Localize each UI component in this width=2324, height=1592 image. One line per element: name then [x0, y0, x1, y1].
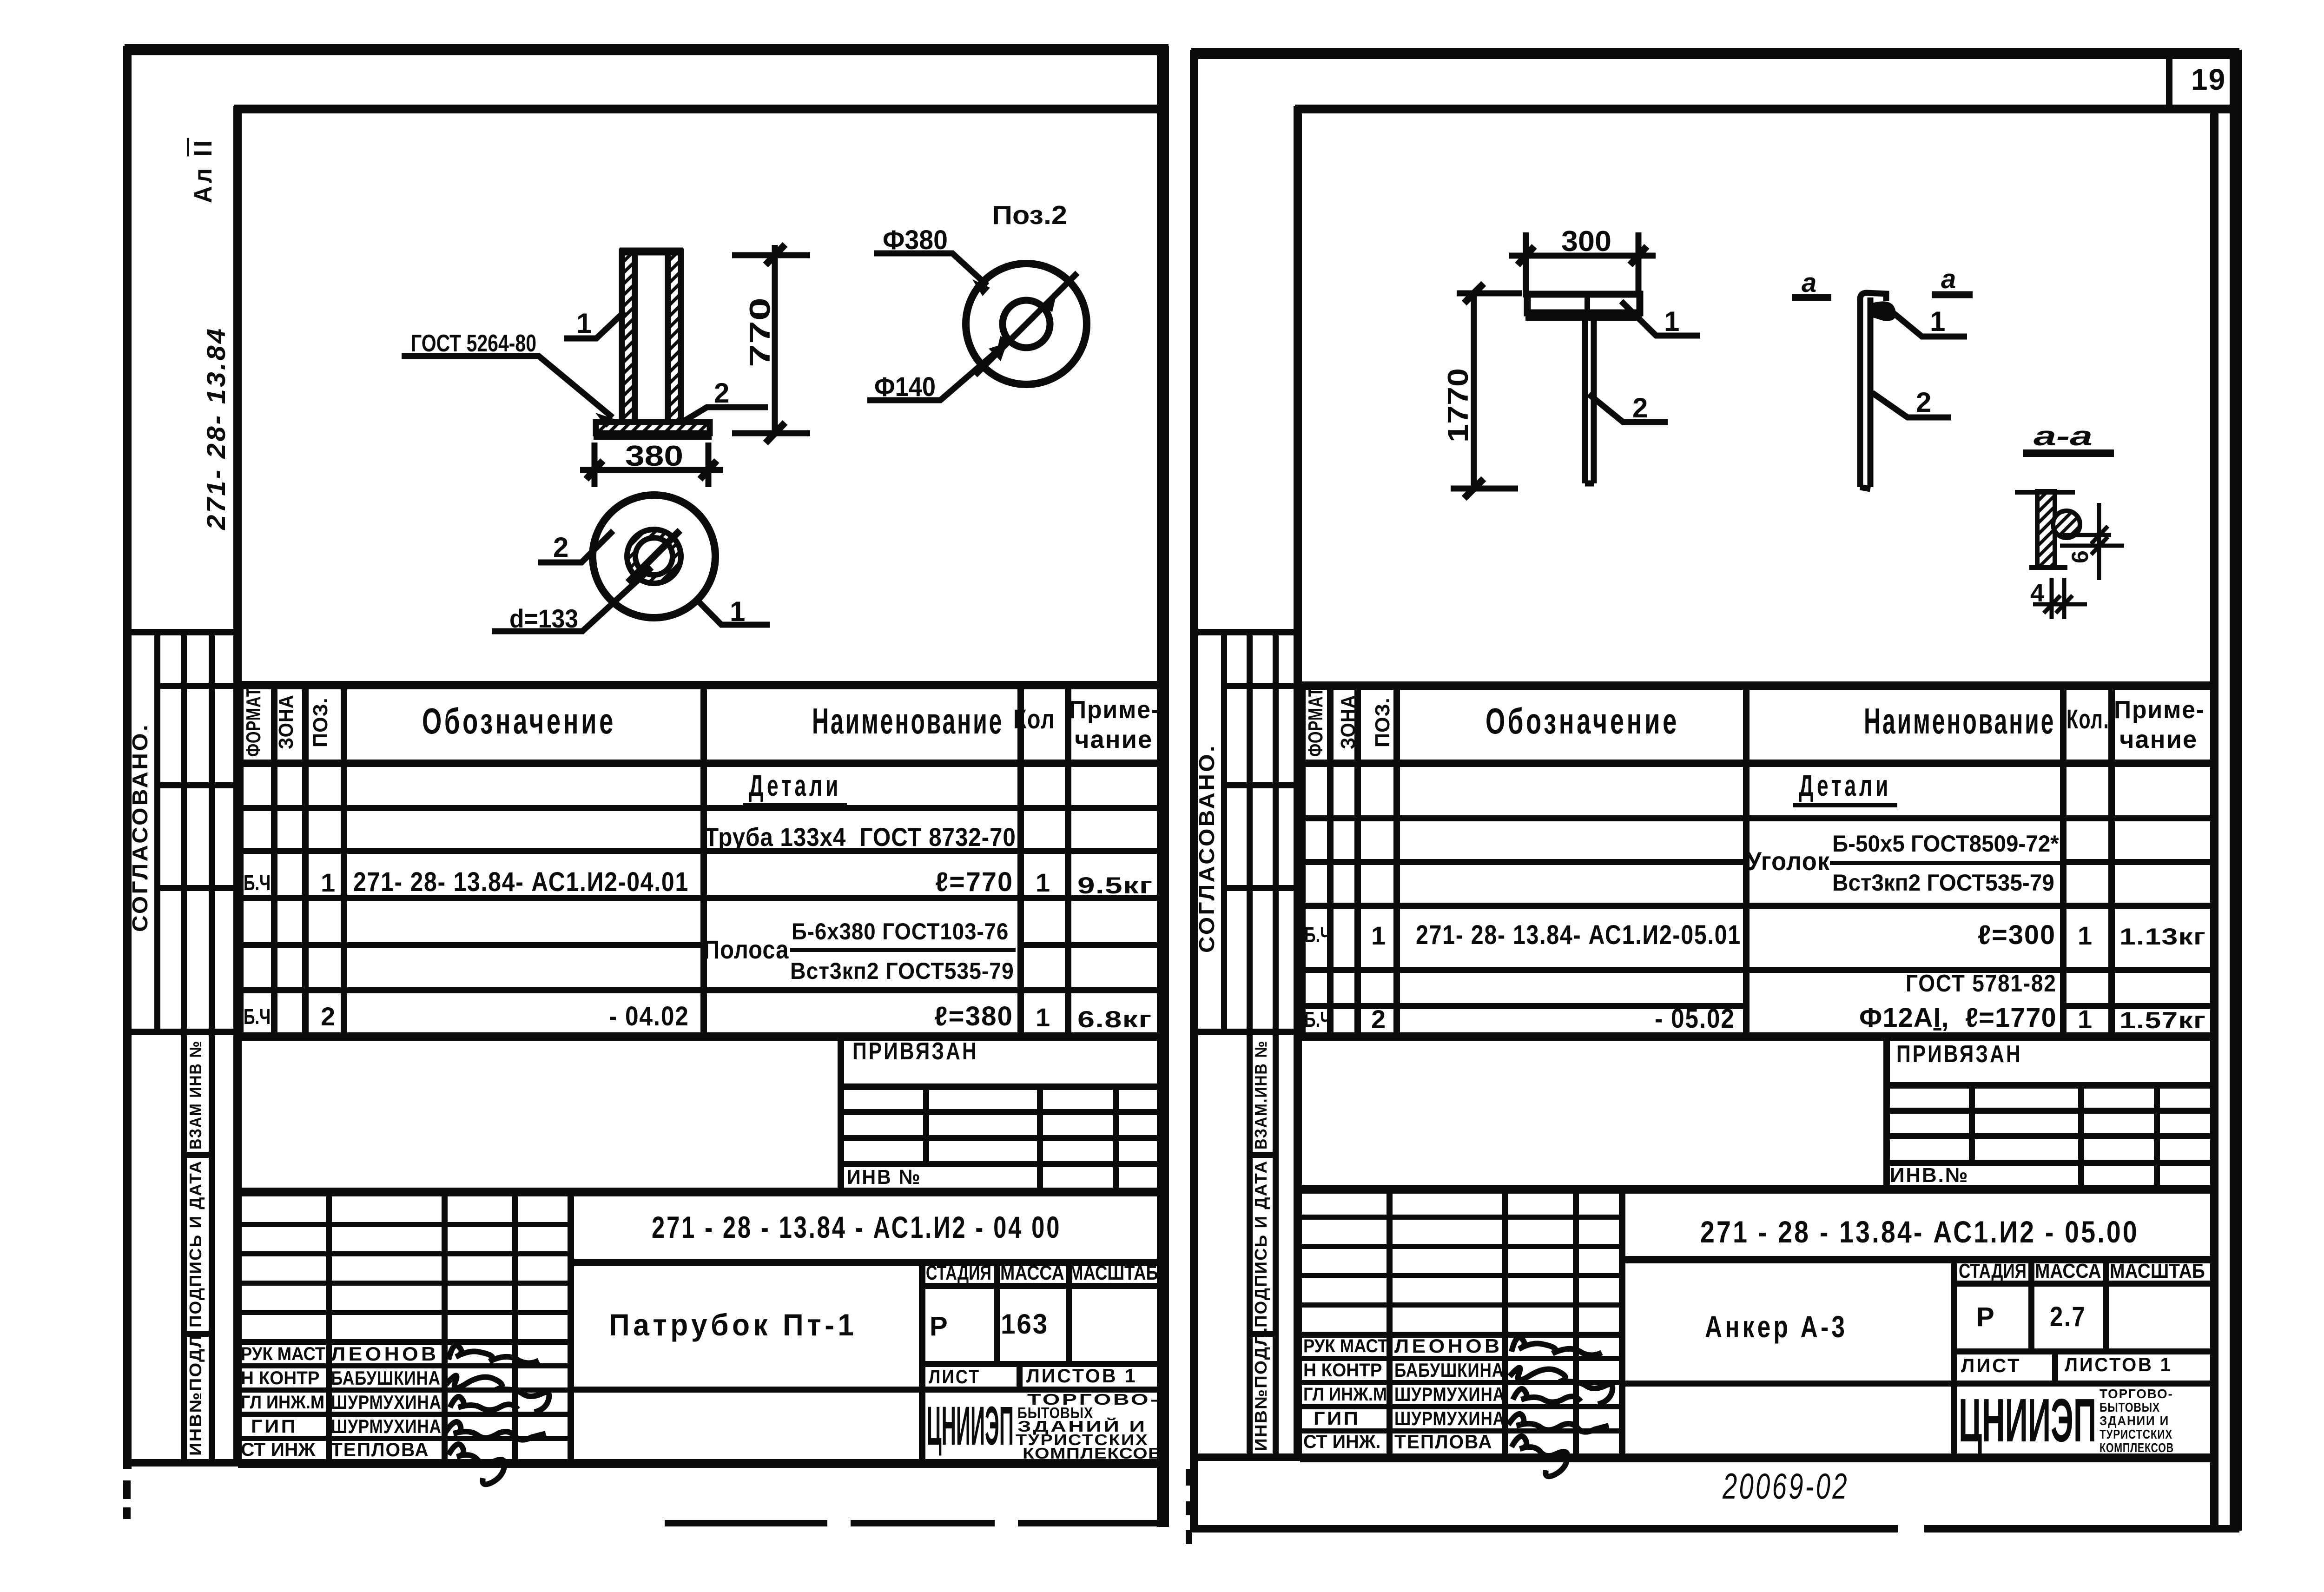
inner frame right [2210, 106, 2218, 1526]
margin: СОГЛАСОВАНО [1194, 744, 1219, 953]
sheet border left [123, 46, 132, 1469]
section mark a underlines [1792, 295, 1973, 297]
leader 1 side [1893, 312, 1967, 337]
svg-text:1: 1 [576, 308, 592, 339]
leader Ф140 [867, 344, 1005, 400]
sheet border bottom [1191, 1525, 1898, 1533]
drawing annotation texts [411, 200, 2093, 633]
plan view outer circle [593, 495, 715, 618]
svg-text:2: 2 [553, 532, 568, 563]
dim 1770 ticks [1451, 293, 1522, 489]
svg-text:1: 1 [1930, 306, 1945, 337]
doc number [1700, 1214, 2139, 1249]
plan leader 2 [538, 531, 613, 562]
dim 1770 line [1471, 292, 1477, 489]
signatures right sheet [1508, 1337, 1612, 1476]
sheet border bottom dashed [665, 1520, 827, 1526]
СТАДИЯ block [919, 1260, 925, 1460]
flange plate hatched [596, 422, 710, 433]
svg-text:1: 1 [1664, 306, 1679, 337]
data row 1 [1304, 922, 1331, 947]
margin cell lines [155, 683, 240, 689]
sheet border right [2230, 50, 2242, 1531]
Поз.2 outer circle [966, 264, 1087, 384]
rod front view [1585, 318, 1594, 483]
margin label ПОДПИСЬ И ДАТА [186, 1160, 205, 1328]
svg-text:d=133: d=133 [509, 604, 578, 633]
svg-text:2: 2 [714, 377, 729, 409]
svg-text:380: 380 [625, 440, 683, 472]
margin label ВЗАМ.ИНВ № [1251, 1040, 1271, 1149]
dim 380 extension lines [594, 443, 708, 487]
plan leader d=133 [492, 568, 652, 631]
margin: СОГЛАСОВАНО [127, 723, 152, 932]
data row 2 [1304, 1007, 1331, 1032]
dim 4 [2052, 578, 2064, 619]
a-a ticks [2015, 492, 2075, 568]
leader 2 front [1589, 394, 1668, 422]
svg-text:770: 770 [744, 297, 776, 367]
svg-text:a-a: a-a [2033, 421, 2093, 451]
dim 1770 slashes [1464, 284, 1484, 498]
inter-sheet dashes [1186, 1469, 1192, 1486]
svg-text:a: a [1802, 268, 1816, 298]
staff [1303, 1336, 1388, 1357]
inner frame top [234, 105, 1159, 113]
pipe top edge [620, 248, 683, 256]
svg-text:ГОСТ 5264-80: ГОСТ 5264-80 [411, 330, 536, 357]
Поз.2 diagonal [975, 273, 1077, 375]
svg-text:a: a [1941, 264, 1956, 294]
header texts [242, 687, 265, 757]
flange bottom line [594, 432, 712, 440]
Детали row [749, 768, 841, 803]
dim 770 slashes [766, 244, 785, 443]
Труба row [705, 822, 1016, 852]
svg-text:2: 2 [1916, 387, 1931, 418]
doc number [652, 1209, 1061, 1245]
margin label ИНВ№ПОДЛ [186, 1334, 205, 1456]
sheet No box 19 [2166, 50, 2172, 112]
margin label ВЗАМ ИНВ № [186, 1040, 205, 1149]
margin label ИНВ№ПОДЛ. [1251, 1327, 1271, 1451]
Уголок fraction [1746, 846, 1830, 876]
leader 1 elevation [564, 311, 625, 338]
leader 1 front [1621, 301, 1700, 336]
pipe elevation left wall [622, 251, 635, 422]
margin label ПОДПИСЬ И ДАТА [1251, 1160, 1271, 1328]
СТАДИЯ block [1951, 1257, 1957, 1455]
dim 300 extension lines [1526, 232, 1638, 297]
signatures left sheet [445, 1345, 549, 1484]
svg-text:1: 1 [730, 596, 745, 627]
dim 770 ticks [732, 255, 810, 433]
svg-text:6: 6 [2067, 550, 2093, 563]
logo ЦНИИЭП [1959, 1385, 2096, 1455]
plan leader 1 [696, 599, 770, 625]
inner frame left spine [1294, 106, 1302, 1460]
Поз.2 inner circle [1003, 300, 1050, 348]
a-a rod circle hatched [2053, 511, 2080, 538]
margin divider [125, 629, 240, 635]
staff [241, 1344, 325, 1365]
side view bar (angle edge-on) [1860, 297, 1870, 487]
plate bottom double edge [1525, 315, 1642, 321]
sheet border right [1157, 46, 1169, 1527]
data row 1 [244, 870, 271, 895]
leader Ф380 [874, 253, 987, 285]
dim 300 line [1509, 253, 1656, 259]
svg-text:2: 2 [1632, 392, 1648, 423]
margin stamp: Ал II [189, 138, 218, 203]
dim 380 line [580, 467, 723, 473]
Детали row [1799, 768, 1891, 803]
margin verticals [154, 630, 160, 1033]
leader 2 elevation [680, 407, 768, 423]
svg-text:Ф380: Ф380 [883, 225, 948, 255]
name [1705, 1309, 1848, 1344]
margin divider [1191, 629, 1300, 635]
plan view ring hatched [627, 529, 681, 583]
svg-text:Поз.2: Поз.2 [992, 200, 1067, 230]
svg-text:1770: 1770 [1442, 368, 1474, 443]
inner frame left spine [233, 106, 242, 1466]
svg-text:Ф140: Ф140 [874, 372, 936, 402]
pipe elevation right wall [668, 251, 681, 422]
dim 770 line [772, 245, 778, 434]
plan diagonal [628, 530, 680, 582]
ГОСТ 5781-82 row [1906, 970, 2057, 997]
Поз.2 inner arrows [1043, 294, 1056, 312]
a-a hatched bar [2037, 491, 2055, 568]
dim 380 slashes [586, 461, 717, 479]
svg-text:300: 300 [1561, 225, 1611, 258]
sheet border top [1191, 48, 2239, 59]
data row 2 [244, 1004, 271, 1029]
dim 6 [2097, 503, 2101, 580]
Полоса fraction [703, 934, 789, 964]
inner frame top [1295, 105, 2232, 113]
leader 2 side [1872, 393, 1951, 417]
plate centre joint [1585, 294, 1590, 313]
section a-a underline [2023, 449, 2114, 457]
logo ЦНИИЭП [927, 1394, 1014, 1458]
margin stamp: 271-28-13.84 [201, 327, 231, 530]
plate front view [1527, 294, 1640, 313]
sheet border top [125, 44, 1169, 55]
svg-text:4: 4 [2030, 579, 2044, 607]
sheet border left [1190, 50, 1198, 1531]
header texts [1304, 687, 1327, 757]
dim 300 slashes [1518, 246, 1647, 265]
weld blob [1871, 301, 1896, 321]
name [609, 1307, 858, 1342]
leader ГОСТ 5264-80 with weld arrow [402, 356, 613, 417]
20069-02 handwriting [1723, 1465, 1849, 1507]
